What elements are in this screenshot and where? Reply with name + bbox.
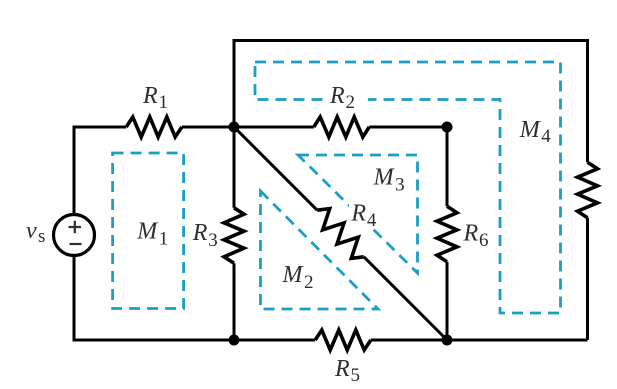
wire: R6 bottom to node D (446, 262, 449, 340)
svg-text:2: 2 (304, 272, 314, 293)
wire right vertical below right resistor (586, 218, 589, 340)
wire: node A down to R3 (233, 127, 236, 208)
svg-text:3: 3 (395, 174, 405, 195)
wire left rail: corner to voltage source top (74, 127, 126, 215)
svg-text:R: R (350, 201, 366, 227)
wire: bottom from R5 through node D to bottom-right corner (371, 339, 588, 342)
resistor R5 (315, 330, 371, 350)
resistor (right side, unlabeled) (578, 162, 598, 218)
svg-text:M: M (282, 262, 305, 288)
svg-text:2: 2 (346, 92, 356, 113)
wire: R2 right lead to node B (369, 126, 447, 129)
svg-text:4: 4 (541, 126, 551, 147)
svg-text:R: R (192, 220, 208, 246)
svg-text:1: 1 (159, 228, 169, 249)
svg-text:v: v (26, 218, 37, 244)
wire: node B down to R6 (446, 127, 449, 206)
wire: R1 right lead to node A (182, 126, 314, 129)
wire: diagonal from node A to R4 (234, 127, 317, 210)
node A junction dot (229, 122, 240, 133)
node D junction dot (442, 335, 453, 346)
node B junction dot (442, 122, 453, 133)
mesh loop M1 (113, 153, 184, 309)
voltage source minus sign (70, 243, 82, 245)
label mask for R4 over dashed line (349, 202, 381, 228)
svg-text:6: 6 (479, 230, 489, 251)
resistor R2 (314, 117, 369, 137)
svg-text:s: s (38, 226, 45, 247)
svg-text:R: R (142, 83, 158, 109)
resistor R1 (126, 117, 182, 137)
resistor R3 (224, 208, 244, 263)
mesh loop M3 (298, 155, 418, 273)
resistor R4 (317, 209, 364, 259)
resistor R6 (437, 206, 457, 262)
mesh loop M2 (261, 191, 379, 309)
svg-text:5: 5 (351, 365, 361, 386)
svg-text:M: M (519, 117, 542, 143)
voltage source plus sign (69, 221, 82, 244)
wire top box: top edge and right vertical of outer box (234, 41, 588, 163)
label mask for R2 over dashed line (326, 84, 368, 112)
svg-text:R: R (329, 83, 345, 109)
wire left rail: voltage source bottom to bottom-left corner (74, 256, 315, 341)
wire: R4 to node D diagonal (364, 257, 447, 340)
svg-text:R: R (334, 356, 350, 382)
voltage source vs circle (54, 215, 95, 256)
svg-text:R: R (463, 221, 479, 247)
node C junction dot (229, 335, 240, 346)
svg-text:3: 3 (208, 230, 218, 251)
svg-text:1: 1 (159, 92, 169, 113)
svg-text:M: M (136, 218, 159, 244)
mesh loop M4 (255, 62, 561, 313)
svg-text:M: M (373, 164, 396, 190)
svg-text:4: 4 (367, 210, 377, 231)
wire: R3 bottom to node C (233, 263, 236, 340)
